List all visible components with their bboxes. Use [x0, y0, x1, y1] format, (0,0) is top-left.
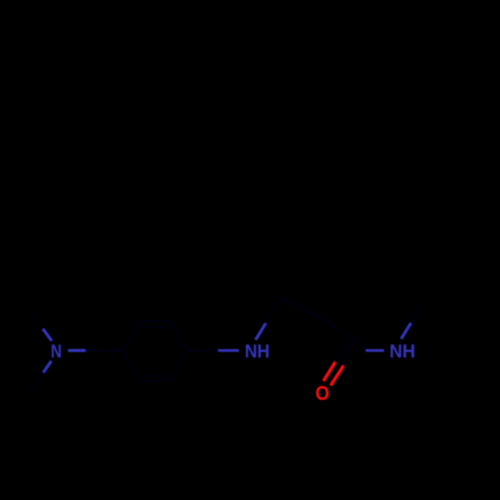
bond N2-CH2 near half (blue)	[256, 323, 266, 339]
bond C-N3 near half (blue)	[366, 349, 384, 352]
bond N1-ring near half (blue)	[68, 349, 86, 352]
bond N1-CH3a near half (blue)	[43, 329, 52, 341]
bond ring-N2 near half (blue)	[218, 349, 239, 352]
bond N3-CH3c near half (blue)	[401, 323, 411, 339]
C=O double bond red half line 1	[323, 362, 335, 381]
wire: chain N2 apex CH2 to carbonyl C to N3 bend (dark)	[264, 298, 366, 351]
wire: benzene ring hexagon (dark)	[123, 322, 187, 381]
svg-text:N: N	[51, 341, 62, 362]
svg-text:NH: NH	[390, 341, 416, 362]
svg-text:O: O	[315, 383, 329, 405]
wire: ring inner double-bond line top (dark)	[142, 326, 168, 329]
wire: C=O outer line upper half (dark)	[342, 341, 354, 368]
wire: methyl CH3a to N1 far half (dark)	[29, 311, 44, 331]
wire: N3 to methyl CH3c far half (dark)	[410, 301, 425, 325]
C=O double bond red half line 2	[331, 366, 344, 386]
wire: ring V4 to N2 far half (dark)	[187, 349, 220, 352]
bond N1-CH3b near half (blue)	[43, 361, 51, 372]
svg-text:NH: NH	[245, 341, 270, 362]
wire: N1 to ring V1 far half (dark)	[85, 349, 124, 352]
wire: methyl CH3b to N1 far half (dark)	[29, 371, 45, 392]
wire: C=O main line upper half (dark)	[335, 334, 353, 363]
wire: ring inner double-bond line bottom (dark)	[142, 374, 168, 377]
